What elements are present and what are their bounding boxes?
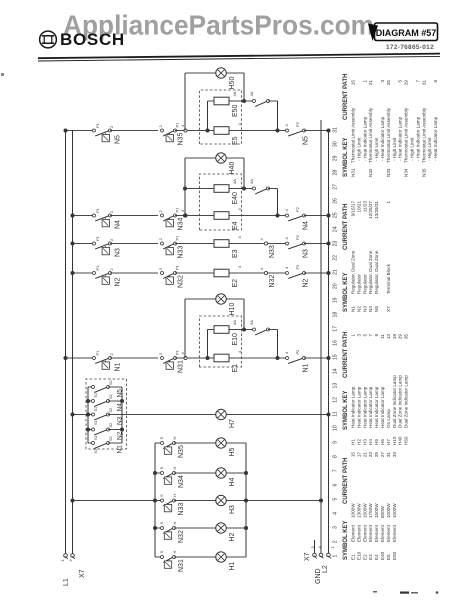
wire 4A drop xyxy=(268,100,278,102)
tie wire E5/E50 elements top xyxy=(207,101,209,131)
wire path 23 feed xyxy=(73,243,95,245)
svg-text:3: 3 xyxy=(333,526,339,529)
svg-text:31: 31 xyxy=(421,80,426,86)
svg-text:E3: E3 xyxy=(368,554,373,560)
svg-text:E10: E10 xyxy=(356,551,361,560)
svg-text:29: 29 xyxy=(404,80,409,86)
node H3 feed xyxy=(71,499,75,503)
regulator contact N1 P2 xyxy=(286,357,289,360)
node L1-N5 feed xyxy=(64,129,68,133)
svg-text:N2: N2 xyxy=(356,306,361,312)
wire path 25 feed xyxy=(73,215,95,217)
regulator contact N2 P1 xyxy=(93,272,96,275)
svg-text:E2: E2 xyxy=(362,554,367,560)
svg-text:P2: P2 xyxy=(295,349,300,355)
svg-text:4A: 4A xyxy=(232,91,237,96)
svg-text:29: 29 xyxy=(398,334,403,340)
node bank top xyxy=(86,428,90,432)
node L1-N1 feed xyxy=(64,356,68,360)
svg-text:13/29/31: 13/29/31 xyxy=(374,201,379,219)
wire lamp H10 top lead xyxy=(185,298,216,300)
node bank top xyxy=(86,399,90,403)
terminal X7 pin 1b xyxy=(327,553,331,557)
wire N31 to lamp H1 xyxy=(174,556,216,558)
svg-text:24: 24 xyxy=(333,226,339,232)
wire 4A drop xyxy=(268,188,278,190)
svg-text:E50: E50 xyxy=(232,104,239,117)
svg-text:H: H xyxy=(172,494,177,497)
svg-text:11/23: 11/23 xyxy=(362,201,367,213)
regulator contact N4 P1 xyxy=(93,214,96,217)
svg-text:N35: N35 xyxy=(178,445,185,458)
thermostat limit contact N31 xyxy=(161,357,164,360)
svg-text:H4: H4 xyxy=(229,477,236,486)
svg-text:S2: S2 xyxy=(109,394,113,399)
auxiliary contact 4A of E1/E10 xyxy=(253,328,256,331)
dual zone indicator lamp H40 xyxy=(216,153,226,163)
svg-text:8: 8 xyxy=(333,455,339,458)
wire N5 P2 to L2 rail xyxy=(304,130,329,132)
svg-text:E40: E40 xyxy=(380,551,385,560)
L1 supply rail (second, from X7 pin 2) xyxy=(72,130,74,554)
svg-text:S1: S1 xyxy=(94,393,98,398)
svg-text:H40: H40 xyxy=(229,162,236,175)
svg-text:P2: P2 xyxy=(295,121,300,127)
svg-text:7: 7 xyxy=(368,334,373,337)
wire N4 P2 to L2 rail xyxy=(304,215,329,217)
svg-text:GND: GND xyxy=(315,568,322,584)
node lamp tie top xyxy=(153,526,157,530)
node bank bottom xyxy=(120,399,124,403)
svg-text:1: 1 xyxy=(362,80,367,83)
node lamp tie bottom xyxy=(244,526,248,530)
feed wire bus2 to lamp bank top xyxy=(73,500,156,502)
wire zone element E40 from tie xyxy=(185,188,214,190)
wire 4A drop xyxy=(268,329,278,331)
svg-text:N1: N1 xyxy=(303,363,310,372)
svg-text:S: S xyxy=(159,522,164,525)
svg-text:H2: H2 xyxy=(356,439,361,445)
svg-text:172-76865-012: 172-76865-012 xyxy=(386,44,434,51)
svg-text:H5: H5 xyxy=(229,447,236,456)
svg-text:6: 6 xyxy=(333,483,339,486)
svg-text:10/21: 10/21 xyxy=(356,201,361,213)
lamp group top tie xyxy=(154,443,156,557)
svg-text:Thermostat Limit Assembly: Thermostat Limit Assembly xyxy=(351,107,356,163)
bank feed xyxy=(73,414,89,416)
limit lamp contact N32 xyxy=(155,527,162,529)
wire element E2 down xyxy=(229,272,287,274)
svg-text:N2: N2 xyxy=(115,277,122,286)
svg-text:19: 19 xyxy=(333,297,339,303)
wire zone element E10 top xyxy=(208,329,215,331)
svg-text:P2: P2 xyxy=(295,234,300,240)
svg-text:P1: P1 xyxy=(95,122,100,128)
regulator contact N3 P2 xyxy=(286,242,289,245)
svg-text:26: 26 xyxy=(333,198,339,204)
svg-text:N5: N5 xyxy=(374,306,379,312)
dashed enclosure E1/E10 xyxy=(200,316,242,367)
svg-text:2: 2 xyxy=(333,540,339,543)
svg-text:P2: P2 xyxy=(295,206,300,212)
svg-text:20: 20 xyxy=(333,283,339,289)
svg-text:18: 18 xyxy=(333,312,339,318)
element E3 xyxy=(214,240,229,248)
corner wedge xyxy=(368,24,378,42)
svg-text:3: 3 xyxy=(380,80,385,83)
node lamp tie bottom xyxy=(244,499,248,503)
node N2 feed xyxy=(71,271,75,275)
svg-text:S1: S1 xyxy=(94,420,98,425)
svg-text:7: 7 xyxy=(415,80,420,83)
svg-text:CURRENT PATH: CURRENT PATH xyxy=(343,458,349,504)
regulator contact N5 P1 xyxy=(93,129,96,132)
svg-text:S1: S1 xyxy=(94,435,98,440)
svg-text:N31: N31 xyxy=(178,559,185,572)
wire lamp H50 top lead xyxy=(185,72,216,74)
node lamp tie bottom xyxy=(244,471,248,475)
svg-text:25: 25 xyxy=(333,212,339,218)
wire N1 to N31 xyxy=(110,357,158,359)
wire element E4 down xyxy=(229,215,287,217)
wire N35 to element xyxy=(175,130,214,132)
svg-text:9: 9 xyxy=(433,80,438,83)
svg-text:5: 5 xyxy=(362,334,367,337)
svg-text:H1: H1 xyxy=(229,561,236,570)
svg-text:Regulator, Dual Zone: Regulator, Dual Zone xyxy=(368,250,373,294)
svg-text:H7: H7 xyxy=(386,439,391,445)
svg-text:N2: N2 xyxy=(117,431,124,440)
svg-text:- Heat Indicator Lamp: - Heat Indicator Lamp xyxy=(415,116,420,161)
tie wire lamp H40 to limit switch xyxy=(184,158,186,216)
svg-text:9: 9 xyxy=(374,334,379,337)
svg-text:N33: N33 xyxy=(178,246,185,259)
svg-text:Element: Element xyxy=(392,524,397,542)
svg-text:H40: H40 xyxy=(398,436,403,445)
svg-text:S: S xyxy=(159,494,164,497)
diagram number box xyxy=(375,23,438,41)
wire zone element E50 top xyxy=(208,100,215,102)
svg-text:Element: Element xyxy=(362,524,367,542)
svg-text:11: 11 xyxy=(380,334,385,339)
wire lamp return to rail xyxy=(246,500,321,502)
svg-text:SYMBOL KEY: SYMBOL KEY xyxy=(343,137,349,177)
svg-text:N32: N32 xyxy=(178,530,185,543)
svg-text:H: H xyxy=(172,437,177,440)
terminal X7 pin 3 (GND) xyxy=(313,553,317,557)
svg-text:H50: H50 xyxy=(404,436,409,445)
svg-text:4: 4 xyxy=(333,512,339,515)
limit lamp contact N31 xyxy=(155,556,162,558)
svg-text:31: 31 xyxy=(386,452,391,458)
svg-text:12: 12 xyxy=(333,397,339,403)
svg-text:23: 23 xyxy=(368,452,373,458)
svg-text:Heat Indicator Lamp: Heat Indicator Lamp xyxy=(380,386,385,428)
svg-text:17: 17 xyxy=(333,326,339,332)
svg-text:14: 14 xyxy=(333,368,339,374)
svg-text:L2: L2 xyxy=(322,565,329,573)
svg-text:N33: N33 xyxy=(386,168,391,177)
tie wire lamp H10 to limit switch xyxy=(184,299,186,358)
wire path 31 feed xyxy=(66,130,95,132)
svg-text:23: 23 xyxy=(333,241,339,247)
svg-text:N1: N1 xyxy=(117,445,124,454)
svg-text:Heat Indicator Lamp: Heat Indicator Lamp xyxy=(356,386,361,428)
svg-text:S2: S2 xyxy=(109,423,113,428)
svg-text:- Heat Indicator Lamp: - Heat Indicator Lamp xyxy=(362,116,367,161)
svg-text:N4: N4 xyxy=(303,221,310,230)
node bank bottom xyxy=(120,428,124,432)
element E50 xyxy=(214,97,229,105)
heat indicator lamp H2 xyxy=(216,523,226,533)
terminal N31:4 xyxy=(184,356,187,359)
dual zone indicator lamp H10 xyxy=(216,294,226,304)
svg-text:X7: X7 xyxy=(79,569,86,578)
node bank feed xyxy=(71,413,75,417)
svg-text:S: S xyxy=(159,467,164,470)
svg-text:22: 22 xyxy=(333,255,339,261)
thermostat limit contact N32 xyxy=(161,272,164,275)
wire N32 to element xyxy=(175,272,214,274)
svg-text:H1: H1 xyxy=(351,439,356,445)
svg-text:N31: N31 xyxy=(351,168,356,177)
svg-text:1: 1 xyxy=(386,201,391,204)
node H10 return join xyxy=(242,328,246,332)
svg-text:1500W: 1500W xyxy=(374,503,379,518)
svg-text:P1: P1 xyxy=(95,207,100,213)
svg-text:X7: X7 xyxy=(304,552,311,561)
wire N2 to N32 xyxy=(110,272,158,274)
auxiliary contact 4A of E4/E40 xyxy=(253,187,256,190)
svg-text:1000W: 1000W xyxy=(392,503,397,518)
dashed enclosure E4/E40 xyxy=(200,174,242,230)
svg-text:P1: P1 xyxy=(95,265,100,271)
svg-text:Thermostat Limit Assembly: Thermostat Limit Assembly xyxy=(368,107,373,163)
svg-text:P1: P1 xyxy=(175,122,180,128)
wire N3 to N33 xyxy=(110,243,158,245)
svg-text:N4: N4 xyxy=(117,403,124,412)
terminal block X7 pin 1 (L1) xyxy=(64,554,68,558)
svg-text:- High Limit: - High Limit xyxy=(392,137,397,161)
GND stub xyxy=(314,540,316,557)
svg-text:7: 7 xyxy=(333,469,339,472)
svg-text:17: 17 xyxy=(356,452,361,458)
svg-text:S2: S2 xyxy=(109,408,113,413)
svg-text:Element: Element xyxy=(386,524,391,542)
svg-text:N34: N34 xyxy=(178,475,185,488)
svg-text:H50: H50 xyxy=(229,77,236,90)
svg-text:S2: S2 xyxy=(109,380,113,385)
svg-text:33: 33 xyxy=(392,452,397,458)
node path15 return xyxy=(327,356,331,360)
node E1/E10 tie xyxy=(206,356,210,360)
node zone join xyxy=(276,214,280,218)
terminal N34:4 xyxy=(184,214,187,217)
svg-text:E4: E4 xyxy=(232,221,239,230)
svg-text:16: 16 xyxy=(333,340,339,346)
svg-text:Regulator: Regulator xyxy=(362,274,367,294)
svg-text:SYMBOL KEY: SYMBOL KEY xyxy=(343,390,349,430)
node bank top xyxy=(86,413,90,417)
svg-text:S: S xyxy=(159,551,164,554)
svg-text:H: H xyxy=(172,467,177,470)
svg-text:H6: H6 xyxy=(380,439,385,445)
svg-text:P1: P1 xyxy=(175,264,180,270)
heat indicator lamp H3 xyxy=(216,495,226,505)
svg-text:Regulator: Regulator xyxy=(356,274,361,294)
node E5/E50 tie xyxy=(206,129,210,133)
svg-text:- High Limit: - High Limit xyxy=(356,137,361,161)
wire lamp H2 down xyxy=(226,527,246,529)
svg-text:H: H xyxy=(172,522,177,525)
svg-text:1500W: 1500W xyxy=(362,503,367,518)
svg-text:N5: N5 xyxy=(115,135,122,144)
switch contact S1 of N4 xyxy=(88,400,93,402)
svg-text:P1: P1 xyxy=(175,207,180,213)
BOSCH logo symbol xyxy=(40,31,57,48)
svg-text:11: 11 xyxy=(333,411,339,416)
header double rule xyxy=(38,54,440,59)
svg-text:P1: P1 xyxy=(95,235,100,241)
svg-text:30: 30 xyxy=(333,141,339,147)
svg-text:Element: Element xyxy=(368,524,373,542)
svg-text:21: 21 xyxy=(362,452,367,458)
wire E10 to 4A contact xyxy=(229,329,254,331)
heat indicator lamp H4 xyxy=(216,468,226,478)
svg-text:12/25/27: 12/25/27 xyxy=(368,201,373,219)
node path21 return xyxy=(327,271,331,275)
node N4 feed xyxy=(71,214,75,218)
switch contact S1 of N2 xyxy=(88,429,93,431)
svg-text:Element: Element xyxy=(356,524,361,542)
svg-text:H2: H2 xyxy=(229,532,236,541)
svg-text:H10: H10 xyxy=(229,303,236,316)
svg-text:- High Limit: - High Limit xyxy=(427,137,432,161)
wire N33 to element xyxy=(175,243,214,245)
regulator contact N2 P2 xyxy=(286,272,289,275)
svg-text:N32: N32 xyxy=(178,275,185,288)
svg-text:SYMBOL KEY: SYMBOL KEY xyxy=(343,272,349,312)
svg-text:19: 19 xyxy=(392,334,397,340)
regulator contact N5 P2 xyxy=(286,129,289,132)
wire lamp H40 bottom lead xyxy=(226,157,244,159)
svg-text:E4: E4 xyxy=(374,554,379,560)
terminal N33:4 xyxy=(264,242,267,245)
svg-text:Element: Element xyxy=(380,524,385,542)
wire N35 to lamp H5 xyxy=(174,442,216,444)
terminal N35:4 xyxy=(184,129,187,132)
svg-text:H7: H7 xyxy=(229,419,236,428)
svg-text:4A: 4A xyxy=(249,179,254,184)
wire N5 to N35 xyxy=(110,130,158,132)
svg-text:27: 27 xyxy=(380,452,385,458)
svg-text:Heat Indicator Lamp: Heat Indicator Lamp xyxy=(368,386,373,428)
svg-text:1300W: 1300W xyxy=(356,503,361,518)
bank bottom tie xyxy=(121,387,123,443)
switch contact S1 of N5 xyxy=(88,386,93,388)
node N3 feed xyxy=(71,242,75,246)
svg-text:N4: N4 xyxy=(115,220,122,229)
wire N4 to N34 xyxy=(110,215,158,217)
svg-text:- Heat Indicator Lamp: - Heat Indicator Lamp xyxy=(398,116,403,161)
tie wire zone branch to main path xyxy=(277,189,279,216)
svg-text:E40: E40 xyxy=(232,192,239,205)
svg-text:1: 1 xyxy=(333,554,339,557)
svg-text:N1: N1 xyxy=(115,362,122,371)
svg-text:25: 25 xyxy=(374,452,379,458)
svg-text:DIAGRAM #57: DIAGRAM #57 xyxy=(376,28,437,38)
svg-text:9: 9 xyxy=(333,441,339,444)
svg-text:H: H xyxy=(172,551,177,554)
wire lamp H40 top lead xyxy=(185,157,216,159)
svg-text:1000W: 1000W xyxy=(386,503,391,518)
wire N2 P2 to L2 rail xyxy=(304,272,329,274)
svg-text:N3: N3 xyxy=(117,416,124,425)
node H40 return join xyxy=(242,187,246,191)
svg-text:5: 5 xyxy=(333,498,339,501)
L1 supply rail (top, from X7 pin 1) xyxy=(65,130,67,554)
svg-text:15: 15 xyxy=(351,80,356,86)
on lamp H7 xyxy=(216,409,226,419)
wire N1 P2 to L2 rail xyxy=(304,357,329,359)
switch contact S1 of N1 xyxy=(88,442,93,444)
svg-text:E5: E5 xyxy=(386,554,391,560)
svg-text:Dual Zone Indicator Lamp: Dual Zone Indicator Lamp xyxy=(392,375,397,428)
svg-text:L1: L1 xyxy=(63,578,70,586)
svg-text:S1: S1 xyxy=(94,407,98,412)
svg-text:5: 5 xyxy=(398,80,403,83)
svg-text:15: 15 xyxy=(333,354,339,360)
terminal X7 pin 4 (L2) xyxy=(319,553,323,557)
svg-text:On Lamp: On Lamp xyxy=(386,409,391,428)
bank top tie xyxy=(87,387,89,443)
svg-text:P2: P2 xyxy=(295,264,300,270)
svg-text:N3: N3 xyxy=(303,249,310,258)
svg-text:Heat Indicator Lamp: Heat Indicator Lamp xyxy=(351,386,356,428)
svg-text:N3: N3 xyxy=(115,248,122,257)
node H7 return xyxy=(327,413,331,417)
tie wire zone branch to main path xyxy=(277,330,279,359)
svg-text:H3: H3 xyxy=(229,505,236,514)
svg-text:N33: N33 xyxy=(269,245,276,258)
wire lamp H50 bottom lead xyxy=(226,72,244,74)
svg-text:SYMBOL KEY: SYMBOL KEY xyxy=(343,520,349,560)
svg-text:N34: N34 xyxy=(178,218,185,231)
wire H7 to L2 rail xyxy=(226,414,329,416)
wire element E5 down xyxy=(229,130,287,132)
svg-text:10: 10 xyxy=(333,425,339,431)
wire N31 to element xyxy=(175,357,214,359)
svg-text:H5: H5 xyxy=(374,439,379,445)
svg-text:S: S xyxy=(159,437,164,440)
svg-text:Element: Element xyxy=(374,524,379,542)
element E10 xyxy=(214,326,229,334)
svg-text:E1: E1 xyxy=(232,364,239,373)
svg-text:N1: N1 xyxy=(351,306,356,312)
svg-text:1: 1 xyxy=(351,334,356,337)
node path31 return xyxy=(327,129,331,133)
svg-text:Thermostat Limit Assembly: Thermostat Limit Assembly xyxy=(386,107,391,163)
regulator contact N1 P1 xyxy=(93,357,96,360)
tie wire zone branch to main path xyxy=(277,101,279,131)
svg-text:N32: N32 xyxy=(368,168,373,177)
wire N34 to lamp H4 xyxy=(174,472,216,474)
svg-text:Thermostat Limit Assembly: Thermostat Limit Assembly xyxy=(421,107,426,163)
wire lamp H3 down xyxy=(226,500,246,502)
svg-text:15: 15 xyxy=(351,452,356,458)
svg-text:Heat Indicator Lamp: Heat Indicator Lamp xyxy=(362,386,367,428)
svg-text:4A: 4A xyxy=(249,91,254,96)
